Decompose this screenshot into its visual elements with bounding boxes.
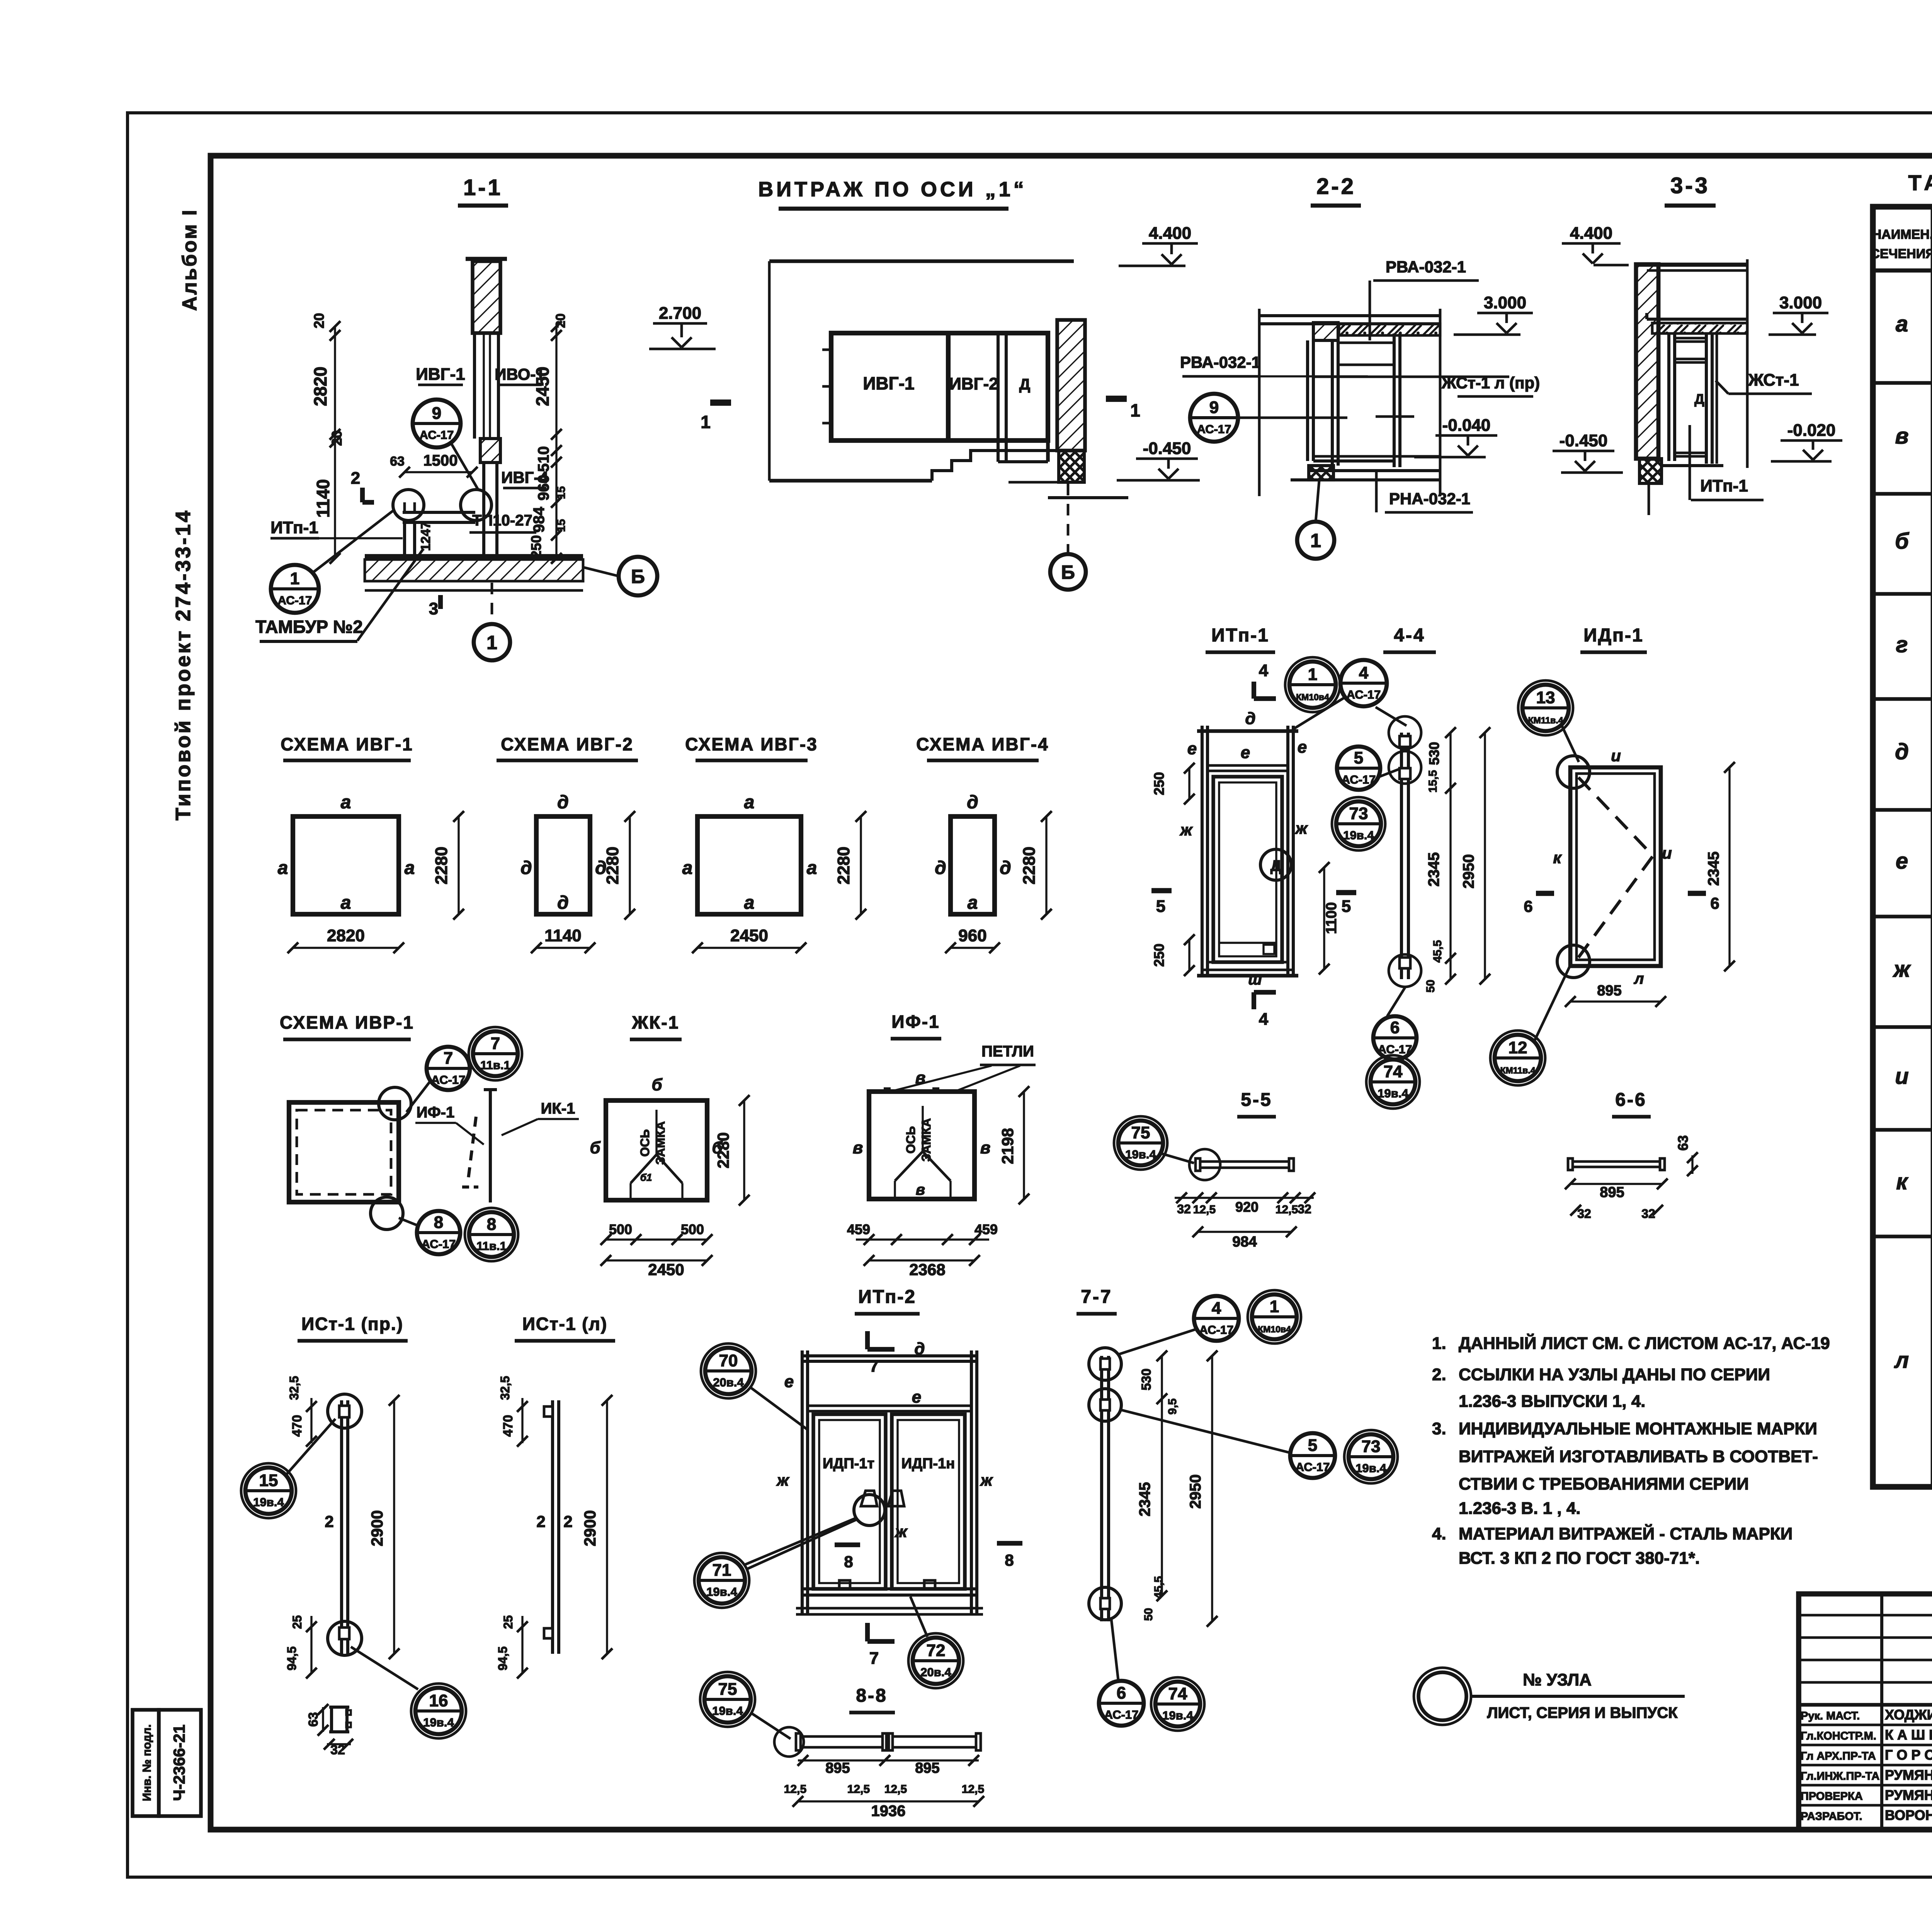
svg-text:г: г	[1896, 632, 1908, 657]
svg-text:ж: ж	[776, 1471, 790, 1489]
svg-text:20в.4: 20в.4	[920, 1665, 951, 1679]
table outer frame	[1873, 207, 1932, 1487]
svg-text:45,5: 45,5	[1431, 940, 1444, 963]
svg-text:1100: 1100	[1323, 902, 1340, 934]
1-1 section mark 3	[429, 595, 440, 618]
svg-text:ВИТРАЖЕЙ ИЗГОТАВЛИВАТЬ В СООТВ: ВИТРАЖЕЙ ИЗГОТАВЛИВАТЬ В СООТВЕТ-	[1459, 1446, 1818, 1466]
svg-text:50: 50	[1142, 1608, 1155, 1621]
table header texts	[1870, 227, 1932, 261]
svg-text:11в.1: 11в.1	[476, 1239, 507, 1253]
svg-text:Гл.ИНЖ.ПР-ТА: Гл.ИНЖ.ПР-ТА	[1801, 1770, 1879, 1782]
svg-text:1: 1	[1308, 665, 1317, 684]
svg-text:63: 63	[390, 454, 405, 469]
1-1 label ИВО-1	[495, 365, 545, 385]
bottom-left inventory boxes	[133, 1710, 201, 1816]
svg-text:НАИМЕН.: НАИМЕН.	[1872, 227, 1932, 242]
1-1 label ТАМБУР №2	[255, 549, 423, 641]
svg-text:-0.020: -0.020	[1787, 421, 1836, 440]
svg-text:20в.4: 20в.4	[713, 1376, 744, 1389]
svg-text:ИК-1: ИК-1	[541, 1100, 575, 1117]
svg-text:в: в	[980, 1138, 991, 1157]
svg-text:Д: Д	[1019, 376, 1031, 393]
svg-text:а: а	[744, 792, 755, 813]
ИТп-1 letter labels	[1180, 709, 1308, 988]
svg-text:7: 7	[869, 1357, 879, 1376]
svg-text:74: 74	[1168, 1684, 1187, 1703]
svg-text:б1: б1	[640, 1172, 652, 1183]
svg-text:а: а	[405, 858, 415, 878]
1-1 axis circle Б	[583, 557, 657, 595]
1-1 section mark 2	[351, 469, 374, 502]
svg-text:ЖК-1: ЖК-1	[632, 1012, 680, 1032]
node 6/АС-17 (4-4)	[1373, 1016, 1417, 1060]
svg-text:8: 8	[434, 1213, 443, 1232]
ИТп-1 title	[1206, 625, 1275, 652]
svg-text:КМ10в4: КМ10в4	[1258, 1324, 1291, 1334]
svg-text:РУМЯНЦЕВА: РУМЯНЦЕВА	[1885, 1767, 1932, 1783]
svg-text:2280: 2280	[834, 847, 853, 884]
svg-text:Б: Б	[1061, 561, 1075, 583]
svg-text:АС-17: АС-17	[420, 428, 454, 442]
1-1 node circle 1/АС-17 with leader	[271, 509, 395, 613]
svg-text:2: 2	[536, 1512, 545, 1531]
svg-text:2345: 2345	[1136, 1482, 1153, 1517]
svg-text:20: 20	[329, 430, 345, 446]
svg-text:2450: 2450	[730, 926, 768, 945]
svg-text:2.700: 2.700	[659, 304, 701, 323]
svg-text:а: а	[341, 792, 351, 813]
1-1 dim 1500 with 63	[390, 452, 478, 478]
svg-text:л: л	[1894, 1348, 1909, 1373]
svg-text:6: 6	[1710, 894, 1719, 912]
svg-text:8: 8	[844, 1553, 853, 1571]
1-1 label ИВГ-4	[501, 468, 548, 488]
svg-text:2345: 2345	[1425, 852, 1442, 887]
vitrazh elev 2.700	[649, 304, 716, 349]
2-2 frame verticals	[1308, 333, 1400, 467]
svg-text:Типовой проект 274-33-14: Типовой проект 274-33-14	[172, 509, 195, 821]
node 73/19в.4	[1332, 797, 1385, 850]
svg-text:ТАБЛИЦА СЕЧЕНИЙ ЭЛЕМЕНТОВ: ТАБЛИЦА СЕЧЕНИЙ ЭЛЕМЕНТОВ	[1908, 170, 1932, 195]
ЖК-1 б labels	[590, 1075, 723, 1157]
svg-text:СХЕМА ИВР-1: СХЕМА ИВР-1	[280, 1012, 414, 1032]
node 75/19в.4 (8-8)	[700, 1672, 791, 1739]
svg-text:1.236-3 ВЫПУСКИ 1, 4.: 1.236-3 ВЫПУСКИ 1, 4.	[1459, 1392, 1645, 1411]
svg-text:е: е	[1187, 739, 1197, 758]
1-1 window frame verticals	[474, 333, 498, 439]
7-7 bar	[1100, 1356, 1110, 1621]
4-4 bottom leader	[1387, 988, 1405, 1016]
svg-text:в: в	[853, 1138, 863, 1157]
ИТп-1 Д circle	[1260, 849, 1291, 880]
svg-text:12,5: 12,5	[962, 1783, 984, 1796]
svg-text:СТВИИ С ТРЕБОВАНИЯМИ СЕРИИ: СТВИИ С ТРЕБОВАНИЯМИ СЕРИИ	[1459, 1475, 1749, 1493]
svg-text:АС-17: АС-17	[431, 1073, 466, 1087]
svg-text:70: 70	[719, 1351, 738, 1370]
svg-text:1.: 1.	[1432, 1334, 1446, 1353]
svg-text:а: а	[807, 858, 817, 878]
svg-text:74: 74	[1384, 1062, 1403, 1081]
svg-text:к: к	[1553, 849, 1562, 867]
1-1 left dimension line	[310, 313, 345, 564]
ИТп-1 opening	[1213, 777, 1282, 962]
svg-text:984: 984	[1232, 1234, 1257, 1250]
svg-text:7: 7	[444, 1049, 453, 1068]
svg-text:ж: ж	[1295, 819, 1308, 837]
svg-text:895: 895	[1597, 983, 1621, 999]
svg-text:470: 470	[290, 1415, 304, 1437]
svg-text:3.000: 3.000	[1484, 293, 1526, 312]
svg-text:12,5: 12,5	[1276, 1203, 1298, 1216]
svg-text:ИВО-1: ИВО-1	[495, 365, 545, 383]
svg-text:АС-17: АС-17	[1199, 1323, 1234, 1337]
node 1/КМ10в4	[1285, 657, 1340, 712]
svg-text:960: 960	[958, 926, 986, 945]
svg-text:ИДП-1т: ИДП-1т	[823, 1456, 874, 1472]
3-3 wall (hatched)	[1636, 264, 1658, 459]
1-1 label ИТп-1 with leader	[270, 518, 403, 538]
ИФ-1 в labels	[853, 1068, 991, 1198]
vitrazh labels	[863, 373, 1030, 393]
svg-text:12,5: 12,5	[884, 1783, 907, 1796]
svg-text:984: 984	[531, 507, 548, 532]
scheme ИВГ-3	[685, 734, 818, 760]
ИТп-2 Д circle	[746, 1495, 885, 1570]
svg-text:б: б	[651, 1075, 663, 1094]
3-3 frame verticals	[1669, 333, 1717, 464]
svg-text:в: в	[916, 1181, 925, 1198]
2-2 node circle 9/АС-17	[1190, 394, 1347, 442]
svg-text:4.400: 4.400	[1570, 224, 1612, 243]
8-8 dims	[784, 1755, 984, 1820]
svg-text:СЕЧЕНИЯ: СЕЧЕНИЯ	[1870, 247, 1932, 261]
6-6 bar	[1568, 1158, 1665, 1170]
svg-text:РНА-032-1: РНА-032-1	[1389, 490, 1470, 508]
svg-text:920: 920	[1235, 1199, 1259, 1215]
svg-text:д: д	[1895, 739, 1909, 764]
svg-text:ИНДИВИДУАЛЬНЫЕ МОНТАЖНЫЕ МАРКИ: ИНДИВИДУАЛЬНЫЕ МОНТАЖНЫЕ МАРКИ	[1459, 1419, 1817, 1438]
svg-text:2.: 2.	[1432, 1365, 1446, 1384]
node 72/20в.4	[908, 1597, 963, 1688]
svg-text:1247: 1247	[418, 522, 433, 551]
svg-text:7-7: 7-7	[1081, 1287, 1112, 1307]
svg-text:Д: Д	[1694, 391, 1704, 407]
svg-text:ж: ж	[895, 1522, 908, 1541]
svg-text:7: 7	[869, 1649, 879, 1668]
2-2 label РВА-032-1 top	[1370, 258, 1479, 340]
section 3-3 title	[1665, 173, 1716, 206]
left margin stamp: Альбом I	[179, 208, 201, 311]
node 15/19в.4	[241, 1419, 335, 1518]
svg-text:Ч-2366-21: Ч-2366-21	[170, 1725, 188, 1801]
ИДп-1 dim 895	[1565, 983, 1666, 1007]
ИТп-2 title	[855, 1287, 920, 1314]
svg-text:2280: 2280	[603, 847, 622, 884]
svg-text:1: 1	[1270, 1297, 1279, 1316]
svg-text:МАТЕРИАЛ ВИТРАЖЕЙ - СТАЛЬ МАРК: МАТЕРИАЛ ВИТРАЖЕЙ - СТАЛЬ МАРКИ	[1459, 1524, 1793, 1543]
svg-text:1.236-3 В. 1 , 4.: 1.236-3 В. 1 , 4.	[1459, 1499, 1581, 1518]
svg-text:895: 895	[1600, 1184, 1624, 1201]
ИТп-1 dims 250	[1151, 763, 1195, 976]
svg-text:РУМЯНЦЕВА: РУМЯНЦЕВА	[1885, 1787, 1932, 1803]
svg-text:19в.4: 19в.4	[253, 1495, 284, 1509]
4-4 right dims	[1424, 727, 1490, 993]
svg-text:8: 8	[1005, 1551, 1014, 1569]
vitrazh floor and steps	[769, 451, 1057, 481]
svg-text:ВСТ. 3 КП 2 ПО ГОСТ 380-71*.: ВСТ. 3 КП 2 ПО ГОСТ 380-71*.	[1459, 1549, 1700, 1568]
svg-text:ИВГ-2: ИВГ-2	[949, 374, 998, 393]
ИДп-1 section flags 6	[1524, 893, 1719, 915]
scheme ИВР-1 title	[280, 1012, 414, 1039]
ИТп-1 section flags 4	[1254, 661, 1276, 1029]
svg-text:1500: 1500	[423, 452, 458, 469]
svg-text:ИДП-1н: ИДП-1н	[901, 1456, 955, 1472]
svg-text:Альбом I: Альбом I	[179, 208, 201, 311]
1-1 label ТП10-27	[469, 512, 536, 532]
scheme ИВГ-4	[916, 734, 1049, 760]
3-3 horizontal members	[1662, 338, 1723, 466]
svg-text:-0.450: -0.450	[1560, 431, 1608, 450]
svg-text:15: 15	[555, 486, 568, 499]
table title	[1908, 170, 1932, 195]
svg-text:КМ11в.4: КМ11в.4	[1528, 715, 1563, 725]
ИВР-1 node 7/АС-17	[406, 1047, 470, 1112]
svg-text:2345: 2345	[1705, 852, 1722, 886]
svg-text:АС-17: АС-17	[1296, 1460, 1330, 1474]
svg-text:ИФ-1: ИФ-1	[891, 1012, 940, 1032]
ИСт-1 пр small dims	[285, 1376, 334, 1679]
svg-text:-0.040: -0.040	[1442, 416, 1491, 435]
svg-text:6: 6	[1390, 1018, 1400, 1037]
vitrazh pier base (cross-hatched)	[1009, 451, 1128, 498]
ИТп-2 top section flag 7	[867, 1331, 895, 1376]
svg-text:АС-17: АС-17	[422, 1237, 456, 1251]
svg-text:ж: ж	[1180, 821, 1193, 839]
svg-text:ш: ш	[1248, 971, 1262, 988]
node 5/АС-17	[1337, 747, 1400, 790]
svg-text:1: 1	[1130, 400, 1140, 420]
svg-text:ЛИСТ, СЕРИЯ И ВЫПУСК: ЛИСТ, СЕРИЯ И ВЫПУСК	[1487, 1704, 1678, 1721]
3-3 elev -0.020	[1771, 421, 1842, 461]
ИТп-2 frame	[802, 1350, 977, 1615]
svg-text:8: 8	[487, 1215, 496, 1234]
vitrazh elev -0.450	[1117, 439, 1200, 480]
svg-text:ИТп-1: ИТп-1	[1700, 476, 1748, 495]
ИТп-2 frame letters	[776, 1339, 993, 1541]
svg-text:1: 1	[701, 412, 711, 432]
2-2 hatched lintel block	[1313, 323, 1338, 340]
svg-text:-0.450: -0.450	[1143, 439, 1191, 458]
1-1 label ИВГ-1	[416, 365, 465, 385]
1-1 node circle 9/АС-17	[413, 400, 478, 490]
ИВР-1 labels ИФ-1 / ИК-1 and pole	[415, 1090, 579, 1202]
svg-text:73: 73	[1349, 804, 1368, 823]
2-2 boundary verticals	[1259, 309, 1440, 496]
svg-text:250: 250	[1151, 944, 1167, 967]
3-3 concrete band	[1652, 323, 1747, 333]
svg-text:б: б	[590, 1138, 601, 1157]
svg-text:е: е	[784, 1372, 794, 1391]
ИФ-1 bottom dims	[847, 1221, 998, 1279]
svg-text:459: 459	[975, 1221, 998, 1237]
table header row line	[1873, 269, 1932, 273]
ИСт-1 пр dim 2900	[368, 1395, 400, 1659]
svg-text:АС-17: АС-17	[1197, 422, 1231, 436]
svg-text:ПРОВЕРКА: ПРОВЕРКА	[1801, 1790, 1863, 1803]
2-2 cross-hatched base	[1309, 466, 1333, 480]
3-3 label ИТп-1	[1690, 425, 1764, 500]
svg-text:ж: ж	[980, 1471, 993, 1489]
svg-text:ДАННЫЙ ЛИСТ СМ. С ЛИСТОМ АС-17: ДАННЫЙ ЛИСТ СМ. С ЛИСТОМ АС-17, АС-19	[1459, 1333, 1830, 1353]
svg-text:3.: 3.	[1432, 1419, 1446, 1438]
svg-text:530: 530	[1426, 742, 1442, 765]
node 12/КМ11в.4	[1490, 967, 1570, 1085]
svg-text:6-6: 6-6	[1615, 1090, 1646, 1110]
2-2 elev 3.000	[1454, 293, 1533, 335]
svg-text:1140: 1140	[544, 926, 581, 945]
svg-text:16: 16	[429, 1691, 448, 1710]
svg-text:и: и	[1895, 1064, 1908, 1089]
svg-text:470: 470	[501, 1415, 515, 1437]
svg-text:ОСЬ: ОСЬ	[904, 1126, 918, 1154]
svg-text:500: 500	[609, 1221, 632, 1237]
svg-text:1140: 1140	[313, 479, 333, 518]
1-1 lower hatched block	[480, 439, 500, 463]
ИСт-1 (пр.) title	[298, 1314, 408, 1341]
vitrazh elev 4.400	[1119, 224, 1198, 266]
svg-text:2900: 2900	[581, 1510, 599, 1546]
svg-text:ж: ж	[1893, 957, 1912, 982]
svg-text:Д: Д	[1270, 857, 1282, 874]
svg-text:2820: 2820	[327, 926, 365, 945]
ИТп-2 panel labels	[823, 1456, 955, 1472]
svg-text:Гл.КОНСТР.М.: Гл.КОНСТР.М.	[1801, 1730, 1876, 1742]
svg-text:15,5: 15,5	[1427, 770, 1439, 793]
svg-text:500: 500	[681, 1221, 704, 1237]
svg-text:5: 5	[1354, 748, 1363, 767]
ИФ-1 square	[869, 1092, 975, 1199]
ИТп-1 dim 1100	[1319, 862, 1340, 975]
svg-text:2280: 2280	[714, 1132, 732, 1168]
svg-text:ИСт-1 (л): ИСт-1 (л)	[522, 1314, 607, 1334]
table row letters	[1893, 311, 1912, 1373]
table row lines full	[1873, 383, 1932, 699]
2-2 bottom lines	[1291, 456, 1440, 480]
svg-text:2: 2	[563, 1512, 572, 1531]
title block left grid	[1799, 1594, 1932, 1830]
svg-text:ЖСт-1: ЖСт-1	[1748, 371, 1799, 389]
svg-text:6: 6	[1524, 897, 1532, 915]
svg-text:е: е	[1241, 743, 1250, 762]
ИВР-1 corner zoom circles	[371, 1087, 411, 1230]
ИСт-1 пр pin circles	[328, 1394, 362, 1655]
ИВР-1 node 8/11в.1	[465, 1208, 518, 1261]
svg-text:2450: 2450	[648, 1260, 684, 1279]
3-3 small Д label	[1694, 391, 1704, 407]
svg-text:15: 15	[555, 519, 568, 532]
svg-text:32: 32	[1298, 1202, 1311, 1216]
ИТп-1 section flags 5	[1151, 891, 1356, 916]
svg-text:1: 1	[290, 569, 299, 588]
svg-text:АС-17: АС-17	[278, 594, 312, 607]
svg-text:459: 459	[847, 1221, 870, 1237]
svg-text:ОСЬ: ОСЬ	[638, 1129, 652, 1157]
svg-text:д: д	[1245, 709, 1255, 728]
svg-text:19в.4: 19в.4	[1343, 828, 1374, 842]
2-2 elev -0.040	[1414, 416, 1497, 457]
svg-text:и: и	[1611, 747, 1621, 765]
svg-text:19в.4: 19в.4	[1378, 1087, 1408, 1100]
svg-text:д: д	[967, 792, 978, 813]
svg-text:РВА-032-1: РВА-032-1	[1386, 258, 1466, 276]
svg-text:20: 20	[311, 313, 327, 328]
node 6/АС-17 (7-7)	[1099, 1619, 1144, 1726]
svg-text:5: 5	[1308, 1436, 1317, 1455]
vitrazh window frame	[831, 333, 1048, 462]
svg-text:ВОРОНЦОВА: ВОРОНЦОВА	[1885, 1807, 1932, 1823]
ИТп-2 trapezoid marks	[861, 1491, 904, 1506]
4-4 title	[1383, 625, 1436, 652]
ИТп-2 bottom flag 7	[867, 1623, 895, 1668]
svg-text:19в.4: 19в.4	[706, 1585, 737, 1599]
svg-text:д: д	[1000, 858, 1011, 878]
node 1/КМ10в4 (7-7)	[1248, 1290, 1301, 1344]
svg-text:д: д	[557, 792, 569, 813]
ИДп-1 letter labels	[1553, 747, 1672, 987]
svg-text:в: в	[1895, 423, 1908, 449]
ИСт-1 пр bar	[339, 1400, 349, 1654]
svg-text:и: и	[1662, 844, 1672, 862]
svg-text:ИВГ-4: ИВГ-4	[501, 468, 548, 486]
svg-text:12,5: 12,5	[1193, 1203, 1216, 1216]
7-7 pin circles	[1089, 1348, 1121, 1620]
8-8 bar	[774, 1727, 981, 1757]
node 5/АС-17 (7-7)	[1120, 1410, 1335, 1478]
svg-text:3: 3	[429, 599, 438, 618]
svg-text:Рук. МАСТ.: Рук. МАСТ.	[1801, 1710, 1860, 1722]
vitrazh frame ticks	[822, 350, 831, 423]
svg-text:19в.4: 19в.4	[1355, 1461, 1386, 1475]
svg-text:ПЕТЛИ: ПЕТЛИ	[981, 1043, 1034, 1060]
svg-text:РАЗРАБОТ.: РАЗРАБОТ.	[1801, 1810, 1862, 1823]
svg-text:СХЕМА ИВГ-4: СХЕМА ИВГ-4	[916, 734, 1049, 754]
svg-text:ИТп-1: ИТп-1	[270, 518, 318, 537]
svg-text:2368: 2368	[909, 1260, 945, 1279]
node 70/20в.4	[701, 1344, 808, 1430]
2-2 label РВА-032-1 left	[1180, 353, 1368, 376]
2-2 axis circle 1	[1297, 481, 1334, 559]
svg-text:19в.4: 19в.4	[1162, 1709, 1193, 1722]
svg-text:ВИТРАЖ ПО ОСИ „1“: ВИТРАЖ ПО ОСИ „1“	[758, 178, 1027, 201]
svg-text:32: 32	[1577, 1207, 1591, 1221]
3-3 right boundary	[1746, 259, 1749, 468]
svg-text:895: 895	[825, 1760, 850, 1776]
svg-text:94,5: 94,5	[285, 1646, 299, 1670]
svg-text:19в.4: 19в.4	[423, 1716, 454, 1729]
svg-text:2820: 2820	[310, 367, 330, 406]
svg-text:а: а	[968, 893, 978, 913]
svg-text:9: 9	[1209, 398, 1219, 417]
svg-text:а: а	[1896, 311, 1908, 337]
node 4/АС17	[1294, 660, 1387, 728]
svg-text:4.400: 4.400	[1149, 224, 1191, 243]
7-7 dims	[1136, 1350, 1218, 1627]
title block outer	[1799, 1594, 1932, 1830]
6-6 title	[1612, 1090, 1651, 1117]
svg-text:73: 73	[1362, 1437, 1381, 1456]
svg-text:2280: 2280	[432, 847, 451, 884]
vitrazh left edge	[768, 261, 771, 481]
